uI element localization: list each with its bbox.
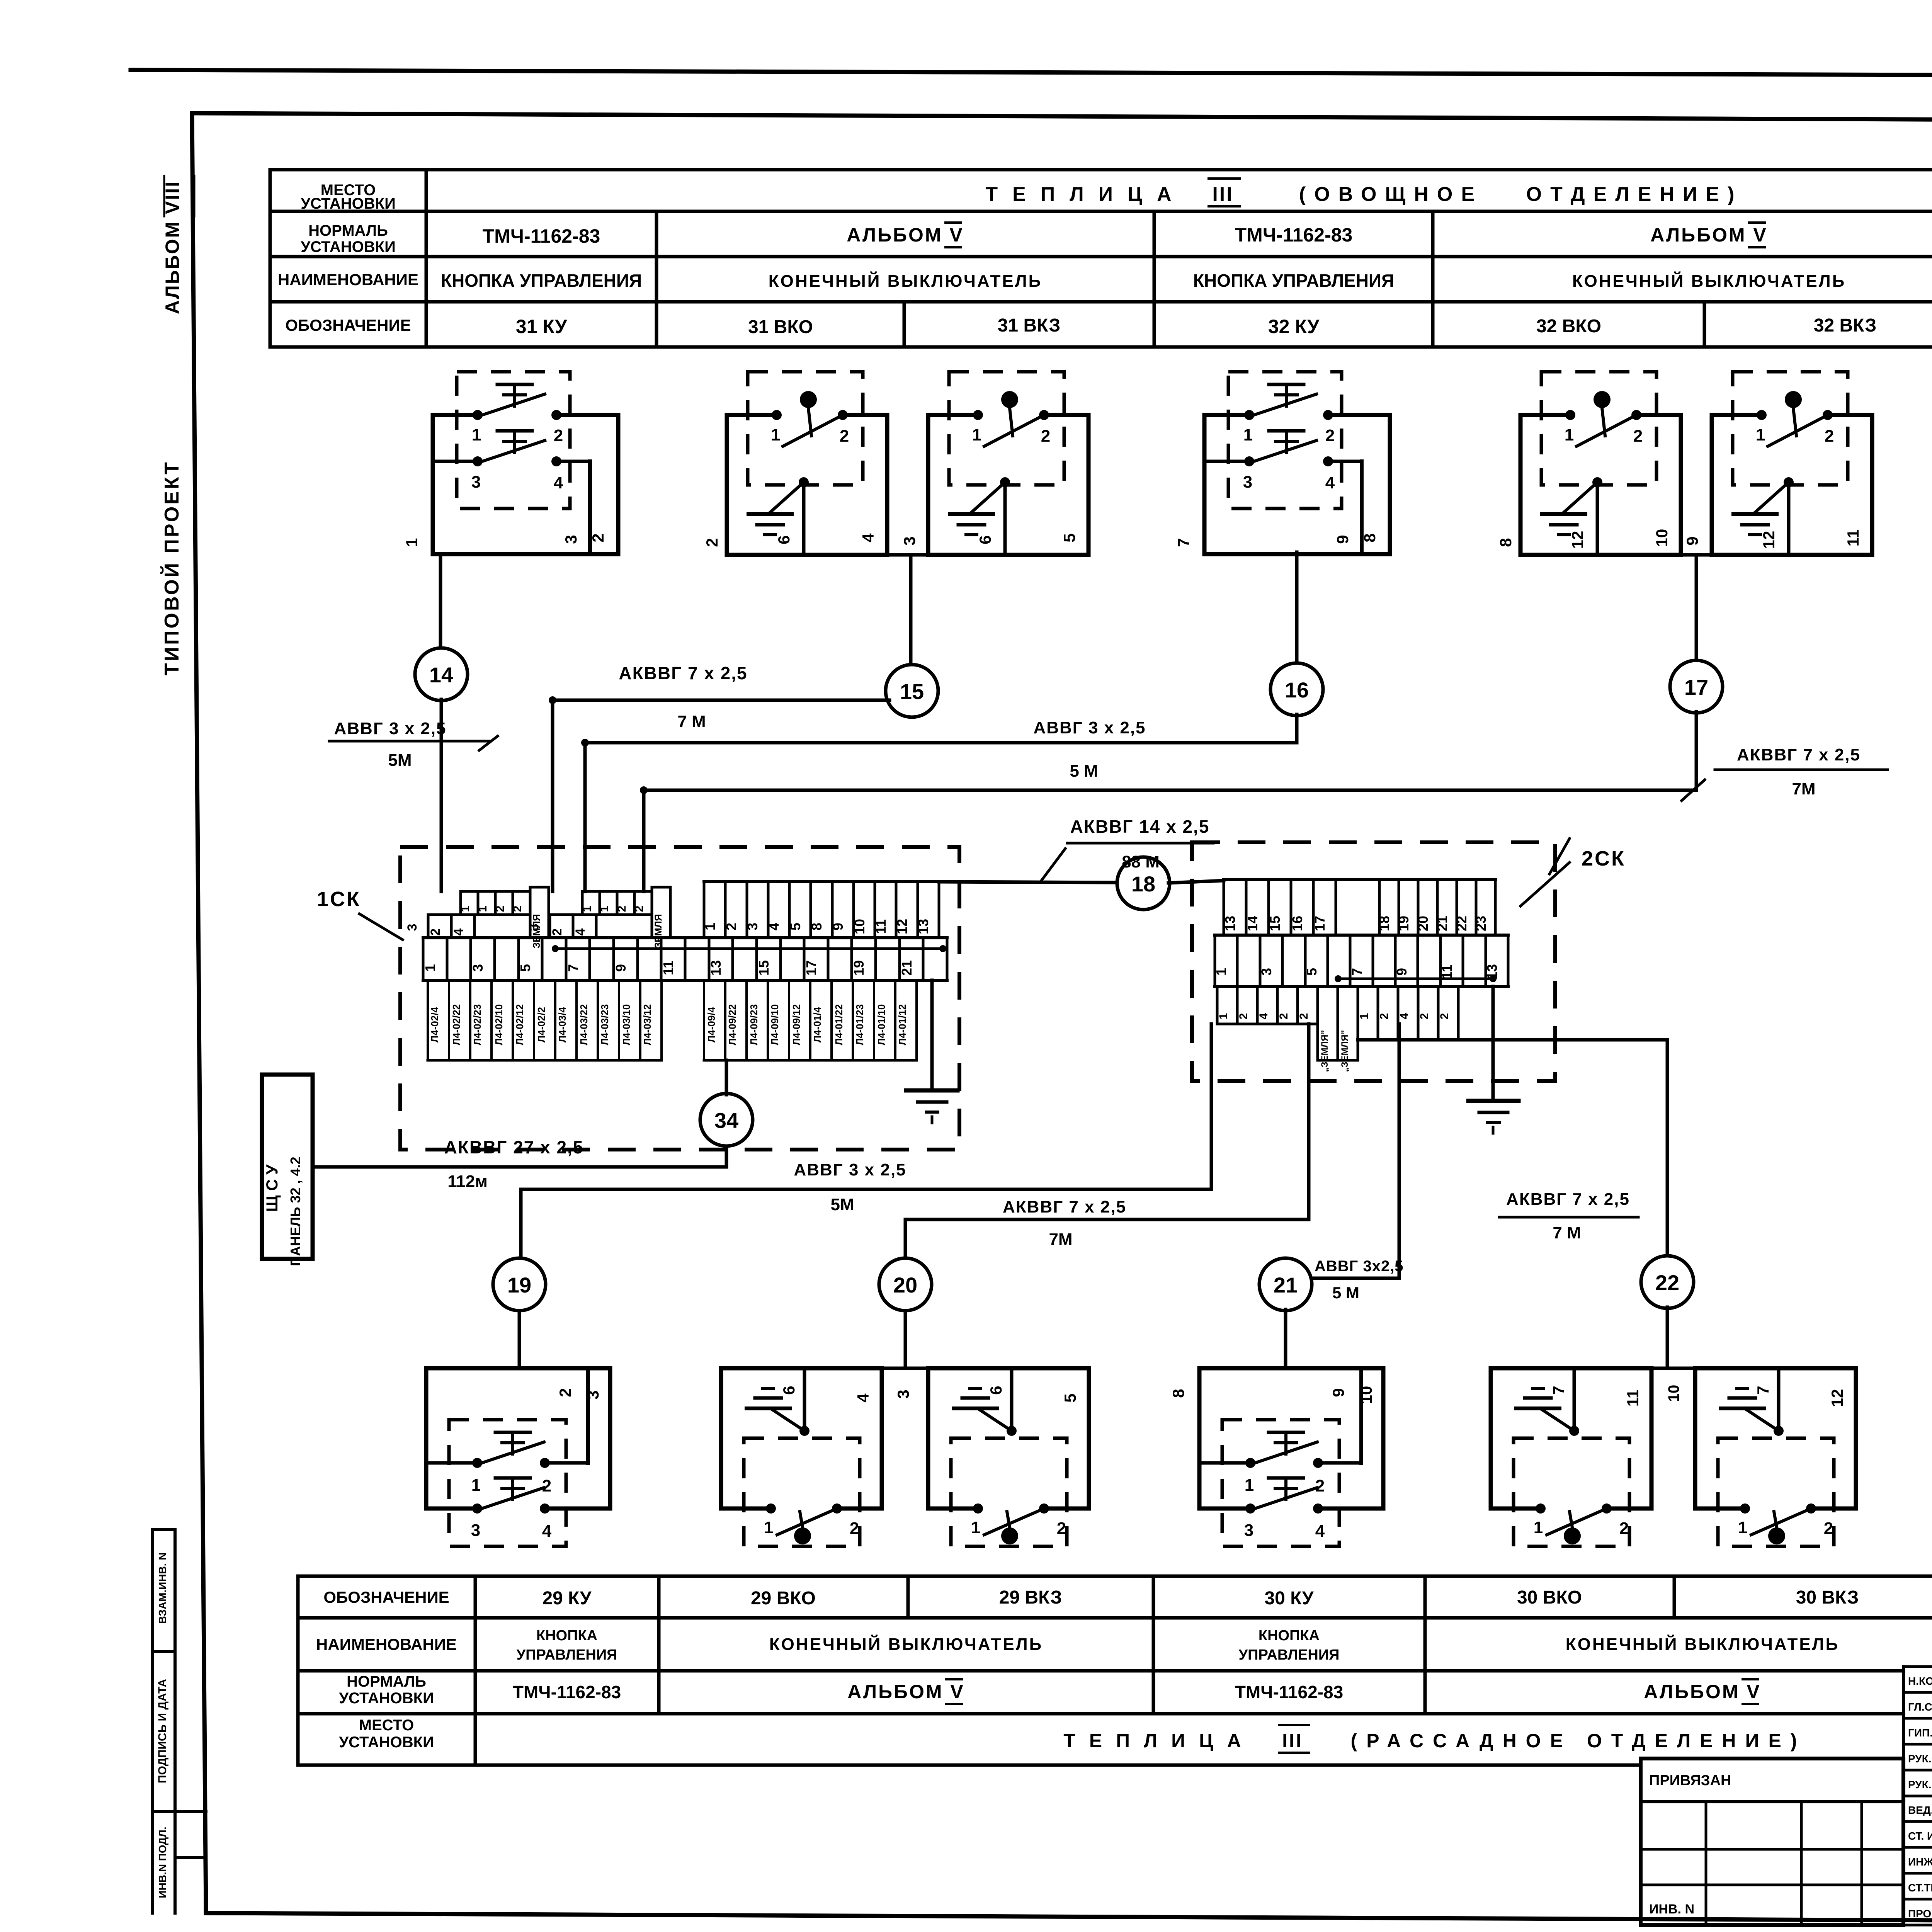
- svg-text:ВЕД.ИНЖ.: ВЕД.ИНЖ.: [1908, 1804, 1932, 1816]
- svg-text:2: 2: [556, 1388, 574, 1397]
- svg-text:УСТАНОВКИ: УСТАНОВКИ: [301, 195, 396, 212]
- svg-text:АКВВГ 14 х 2,5: АКВВГ 14 х 2,5: [1070, 816, 1210, 837]
- svg-text:23: 23: [1473, 916, 1489, 931]
- svg-text:КОНЕЧНЫЙ ВЫКЛЮЧАТЕЛЬ: КОНЕЧНЫЙ ВЫКЛЮЧАТЕЛЬ: [1566, 1634, 1839, 1654]
- svg-text:6: 6: [780, 1386, 798, 1395]
- svg-text:21: 21: [1434, 916, 1450, 931]
- svg-text:10: 10: [1357, 1386, 1375, 1404]
- 2СК lower small cells: [1216, 986, 1219, 1024]
- svg-text:ТМЧ-1162-83: ТМЧ-1162-83: [483, 225, 600, 247]
- svg-text:20: 20: [1415, 916, 1431, 931]
- svg-text:2: 2: [1619, 1519, 1629, 1538]
- 1СК ground wire and symbol: [930, 980, 934, 1089]
- svg-text:3: 3: [470, 964, 486, 972]
- svg-text:18: 18: [1131, 872, 1155, 896]
- svg-text:ОБОЗНАЧЕНИЕ: ОБОЗНАЧЕНИЕ: [323, 1588, 449, 1606]
- wire ЩСУ to 1СК via circle 34 (cable 27x2.5): [313, 1165, 726, 1169]
- svg-text:„ЗЕМЛЯ”: „ЗЕМЛЯ”: [1320, 1030, 1330, 1072]
- svg-text:32 ВКО: 32 ВКО: [1536, 316, 1601, 337]
- svg-text:Л4-02/4: Л4-02/4: [429, 1007, 440, 1043]
- svg-text:УПРАВЛЕНИЯ: УПРАВЛЕНИЯ: [517, 1647, 617, 1663]
- svg-text:13: 13: [915, 919, 931, 934]
- svg-text:1: 1: [1358, 1013, 1371, 1020]
- svg-text:5М: 5М: [830, 1195, 854, 1214]
- svg-text:АВВГ 3х2,5: АВВГ 3х2,5: [1315, 1258, 1404, 1275]
- svg-text:9: 9: [1683, 536, 1701, 545]
- svg-text:Н.КОНТР.: Н.КОНТР.: [1908, 1675, 1932, 1687]
- svg-text:ТЕПЛИЦА: ТЕПЛИЦА: [985, 183, 1186, 206]
- svg-text:1: 1: [472, 425, 481, 444]
- svg-text:32 КУ: 32 КУ: [1268, 316, 1320, 337]
- svg-text:11: 11: [1844, 529, 1862, 546]
- svg-text:УСТАНОВКИ: УСТАНОВКИ: [301, 238, 396, 255]
- svg-text:7 М: 7 М: [677, 712, 706, 731]
- svg-text:1: 1: [471, 1476, 481, 1495]
- svg-text:2: 2: [550, 929, 565, 936]
- cable marker circle 34: [700, 1094, 753, 1146]
- svg-text:3: 3: [900, 536, 918, 545]
- svg-text:4: 4: [451, 928, 466, 935]
- svg-text:7: 7: [565, 964, 581, 972]
- svg-text:7М: 7М: [1792, 779, 1815, 798]
- svg-text:АЛЬБОМ V: АЛЬБОМ V: [1650, 224, 1767, 246]
- svg-text:11: 11: [1624, 1389, 1642, 1406]
- svg-text:СТ. ИНЖ.: СТ. ИНЖ.: [1908, 1830, 1932, 1842]
- svg-text:3: 3: [1243, 473, 1252, 492]
- svg-text:30 ВКЗ: 30 ВКЗ: [1796, 1587, 1859, 1608]
- svg-text:2: 2: [1057, 1519, 1066, 1538]
- cable marker circle 21: [1259, 1258, 1312, 1311]
- svg-text:4: 4: [1257, 1013, 1270, 1019]
- svg-text:4: 4: [554, 473, 563, 492]
- svg-text:15: 15: [756, 960, 772, 976]
- svg-text:КНОПКА УПРАВЛЕНИЯ: КНОПКА УПРАВЛЕНИЯ: [1193, 270, 1394, 291]
- limit switch 30ВКЗ: [1695, 1366, 1856, 1371]
- svg-text:Л4-03/23: Л4-03/23: [599, 1004, 611, 1045]
- svg-text:2: 2: [850, 1519, 859, 1538]
- svg-text:2: 2: [723, 923, 739, 930]
- wire from 31ВКО/31ВКЗ down to 1СК (cable 15): [909, 555, 913, 666]
- svg-text:11: 11: [1439, 964, 1455, 979]
- svg-text:3: 3: [1244, 1521, 1253, 1540]
- svg-text:Щ С У: Щ С У: [263, 1164, 281, 1212]
- svg-text:12: 12: [1760, 531, 1778, 549]
- svg-text:ЗЕМЛЯ: ЗЕМЛЯ: [653, 914, 664, 949]
- svg-text:АВВГ 3 х 2,5: АВВГ 3 х 2,5: [1033, 718, 1146, 737]
- svg-text:Л4-09/10: Л4-09/10: [769, 1004, 781, 1045]
- svg-text:4: 4: [573, 928, 588, 935]
- wire 2СК to 30КУ (cable 21): [1398, 1024, 1401, 1278]
- svg-text:9: 9: [1333, 535, 1352, 544]
- svg-text:УСТАНОВКИ: УСТАНОВКИ: [339, 1690, 434, 1707]
- wire 2СК to 30ВКО/30ВКЗ (cable 22): [1666, 1040, 1669, 1257]
- svg-text:2: 2: [511, 906, 524, 912]
- svg-text:ТМЧ-1162-83: ТМЧ-1162-83: [1235, 224, 1353, 246]
- svg-text:Л4-01/4: Л4-01/4: [811, 1007, 823, 1043]
- svg-text:Л4-01/10: Л4-01/10: [876, 1004, 887, 1045]
- svg-text:5 М: 5 М: [1332, 1284, 1359, 1302]
- wire node 10 between 30ВКО and 30ВКЗ: [1651, 1367, 1695, 1370]
- svg-text:31 ВКО: 31 ВКО: [748, 317, 813, 337]
- svg-text:29 ВКЗ: 29 ВКЗ: [999, 1587, 1062, 1608]
- sheet outer top edge: [131, 70, 1932, 77]
- cable marker circle 20: [879, 1258, 932, 1311]
- wire from 32ВКО/32ВКЗ down to 1СК (cable 17): [1695, 555, 1698, 662]
- svg-text:КНОПКА УПРАВЛЕНИЯ: КНОПКА УПРАВЛЕНИЯ: [441, 270, 642, 291]
- 2СК tall terminal cells 13-23: [1223, 879, 1225, 935]
- svg-text:ГИП.: ГИП.: [1908, 1727, 1932, 1739]
- bottom device table frame: [298, 1575, 1932, 1578]
- svg-text:31 КУ: 31 КУ: [516, 316, 567, 337]
- svg-text:2: 2: [494, 906, 507, 912]
- wire 2СК to 29КУ (cable 19): [1210, 1024, 1213, 1189]
- svg-text:Л4-09/23: Л4-09/23: [748, 1004, 760, 1045]
- svg-text:АКВВГ 7 х 2,5: АКВВГ 7 х 2,5: [1737, 745, 1861, 764]
- junction box 1СК dashed outline: [400, 847, 959, 1150]
- svg-text:2: 2: [554, 426, 563, 445]
- svg-text:2: 2: [1277, 1013, 1290, 1020]
- wire 2СК to 29ВКО/29ВКЗ (cable 20): [1307, 1024, 1311, 1219]
- svg-text:2: 2: [1438, 1013, 1451, 1020]
- svg-text:19: 19: [507, 1273, 531, 1297]
- 1СК tall terminal cells 1-13: [703, 882, 706, 938]
- svg-text:6: 6: [976, 535, 994, 544]
- svg-text:ОТДЕЛЕНИЕ): ОТДЕЛЕНИЕ): [1526, 183, 1743, 206]
- svg-text:ОБОЗНАЧЕНИЕ: ОБОЗНАЧЕНИЕ: [285, 316, 411, 334]
- svg-text:3: 3: [1259, 968, 1274, 976]
- svg-text:Л4-02/22: Л4-02/22: [451, 1004, 462, 1045]
- svg-text:АКВВГ 7 х 2,5: АКВВГ 7 х 2,5: [1506, 1190, 1630, 1209]
- svg-text:11: 11: [873, 919, 889, 934]
- svg-text:ИНВ. N: ИНВ. N: [1649, 1902, 1694, 1917]
- svg-text:1: 1: [1534, 1518, 1543, 1537]
- svg-text:9: 9: [1394, 968, 1410, 976]
- svg-text:22: 22: [1655, 1270, 1679, 1295]
- svg-text:7М: 7М: [1049, 1230, 1072, 1249]
- 1СК cable tag row: [427, 980, 429, 1060]
- svg-text:ВЗАМ.ИНВ. N: ВЗАМ.ИНВ. N: [156, 1552, 168, 1624]
- limit switch 30ВКО: [1491, 1366, 1651, 1371]
- svg-text:НОРМАЛЬ: НОРМАЛЬ: [308, 222, 388, 239]
- svg-text:2: 2: [589, 533, 607, 542]
- wire node 3 between 29ВКО and 29ВКЗ: [882, 1367, 928, 1370]
- svg-text:32 ВКЗ: 32 ВКЗ: [1814, 315, 1877, 336]
- svg-text:29 ВКО: 29 ВКО: [751, 1588, 816, 1609]
- svg-text:1: 1: [971, 1518, 980, 1537]
- svg-text:КОНЕЧНЫЙ ВЫКЛЮЧАТЕЛЬ: КОНЕЧНЫЙ ВЫКЛЮЧАТЕЛЬ: [769, 1634, 1043, 1654]
- svg-text:ПОДПИСЬ И ДАТА: ПОДПИСЬ И ДАТА: [156, 1679, 169, 1783]
- svg-text:8: 8: [1361, 533, 1379, 542]
- svg-text:2: 2: [1633, 427, 1643, 446]
- wire node 3 between 31ВКО and 31ВКЗ: [887, 553, 928, 557]
- svg-text:34: 34: [714, 1108, 738, 1133]
- svg-text:3: 3: [527, 924, 541, 931]
- svg-text:8: 8: [809, 923, 825, 930]
- svg-text:2: 2: [1824, 1519, 1833, 1538]
- svg-text:АКВВГ 7 х 2,5: АКВВГ 7 х 2,5: [1003, 1197, 1126, 1216]
- svg-text:ТМЧ-1162-83: ТМЧ-1162-83: [513, 1682, 621, 1702]
- svg-text:12: 12: [1568, 531, 1587, 549]
- svg-text:1: 1: [1245, 1476, 1254, 1495]
- svg-text:30 ВКО: 30 ВКО: [1517, 1587, 1582, 1608]
- svg-text:2: 2: [428, 929, 443, 936]
- svg-text:1: 1: [476, 906, 489, 912]
- svg-text:7: 7: [1549, 1386, 1568, 1395]
- svg-text:4: 4: [1315, 1522, 1325, 1541]
- svg-text:2: 2: [1418, 1013, 1431, 1020]
- svg-text:ИНЖ.: ИНЖ.: [1908, 1856, 1932, 1868]
- svg-text:1: 1: [764, 1518, 773, 1537]
- title block signatures table: [1902, 1667, 1905, 1925]
- svg-text:4: 4: [859, 533, 877, 543]
- svg-text:5 М: 5 М: [1070, 762, 1098, 781]
- cable marker circle 22: [1641, 1256, 1694, 1308]
- svg-text:(ОВОЩНОЕ: (ОВОЩНОЕ: [1299, 183, 1483, 206]
- cable marker circle 16: [1270, 663, 1323, 716]
- svg-text:8: 8: [1497, 538, 1515, 547]
- junction box 2СК dashed outline: [1192, 842, 1555, 1081]
- svg-text:88 М: 88 М: [1122, 852, 1160, 871]
- svg-text:ТИПОВОЙ ПРОЕКТ: ТИПОВОЙ ПРОЕКТ: [160, 460, 183, 675]
- svg-text:1: 1: [702, 923, 718, 930]
- svg-text:16: 16: [1289, 916, 1305, 931]
- svg-text:ТМЧ-1162-83: ТМЧ-1162-83: [1235, 1682, 1343, 1702]
- svg-text:2: 2: [1325, 426, 1335, 445]
- svg-text:13: 13: [1222, 916, 1238, 931]
- svg-text:11: 11: [660, 961, 676, 975]
- svg-text:5: 5: [787, 923, 803, 930]
- limit switch 29ВКО: [721, 1366, 882, 1371]
- svg-text:7: 7: [1174, 538, 1192, 547]
- svg-text:ИНВ.N ПОДЛ.: ИНВ.N ПОДЛ.: [156, 1827, 168, 1898]
- 2СК main terminal row: [1215, 934, 1508, 937]
- svg-text:5: 5: [1304, 968, 1320, 976]
- svg-text:7 М: 7 М: [1553, 1223, 1581, 1242]
- svg-text:21: 21: [899, 960, 915, 976]
- svg-text:4: 4: [766, 923, 782, 930]
- svg-text:АКВВГ 7 х 2,5: АКВВГ 7 х 2,5: [619, 663, 747, 683]
- svg-text:1: 1: [581, 906, 594, 912]
- svg-text:НОРМАЛЬ: НОРМАЛЬ: [347, 1673, 426, 1690]
- svg-text:22: 22: [1454, 916, 1469, 931]
- push-button station 32КУ: [1204, 413, 1249, 417]
- title block attach box Привязан: [1641, 1759, 1903, 1925]
- wire from 32КУ down to 1СК (cable 16): [1295, 552, 1299, 664]
- limit switch 32ВКО: [1520, 413, 1570, 417]
- svg-text:21: 21: [1274, 1273, 1298, 1297]
- svg-text:1: 1: [1756, 425, 1765, 444]
- svg-text:КОНЕЧНЫЙ ВЫКЛЮЧАТЕЛЬ: КОНЕЧНЫЙ ВЫКЛЮЧАТЕЛЬ: [1572, 271, 1846, 291]
- svg-text:9: 9: [1329, 1388, 1347, 1397]
- cable marker circle 19: [493, 1258, 546, 1311]
- svg-text:8: 8: [1169, 1389, 1187, 1398]
- svg-text:17: 17: [803, 960, 819, 976]
- svg-text:1: 1: [972, 425, 981, 444]
- svg-text:Л4-02/12: Л4-02/12: [514, 1004, 526, 1045]
- svg-text:Л4-01/12: Л4-01/12: [896, 1004, 908, 1045]
- svg-text:1СК: 1СК: [317, 888, 361, 911]
- svg-text:19: 19: [851, 960, 867, 976]
- svg-text:9: 9: [830, 923, 846, 930]
- svg-text:30 КУ: 30 КУ: [1264, 1588, 1314, 1609]
- svg-text:17: 17: [1684, 675, 1708, 699]
- svg-text:19: 19: [1396, 916, 1412, 931]
- svg-text:12: 12: [1828, 1389, 1846, 1407]
- svg-text:1: 1: [771, 425, 780, 444]
- svg-text:15: 15: [900, 679, 924, 704]
- svg-text:Л4-09/22: Л4-09/22: [726, 1004, 738, 1045]
- svg-text:III: III: [1282, 1730, 1303, 1752]
- svg-text:5: 5: [517, 964, 533, 972]
- svg-text:3: 3: [562, 535, 580, 544]
- svg-text:6: 6: [775, 535, 793, 544]
- svg-text:1: 1: [1213, 968, 1229, 976]
- svg-text:(РАССАДНОЕ ОТДЕЛЕНИЕ): (РАССАДНОЕ ОТДЕЛЕНИЕ): [1351, 1730, 1806, 1752]
- svg-text:Л4-02/2: Л4-02/2: [536, 1007, 547, 1043]
- svg-text:КНОПКА: КНОПКА: [536, 1628, 597, 1644]
- cable marker circle 15: [886, 665, 938, 717]
- svg-text:„ЗЕМЛЯ”: „ЗЕМЛЯ”: [1340, 1030, 1350, 1072]
- svg-text:2: 2: [840, 427, 849, 446]
- svg-text:2СК: 2СК: [1582, 847, 1626, 870]
- svg-text:Л4-01/23: Л4-01/23: [854, 1004, 866, 1045]
- svg-text:КНОПКА: КНОПКА: [1259, 1628, 1320, 1644]
- svg-text:2: 2: [1237, 1013, 1250, 1020]
- svg-text:АЛЬБОМ V: АЛЬБОМ V: [847, 224, 964, 246]
- svg-text:12: 12: [894, 919, 910, 934]
- svg-text:14: 14: [1245, 916, 1260, 931]
- svg-text:17: 17: [1312, 916, 1328, 931]
- svg-text:2: 2: [703, 538, 721, 547]
- svg-text:СТ.ТЕХН.: СТ.ТЕХН.: [1908, 1882, 1932, 1894]
- svg-text:5М: 5М: [388, 751, 412, 770]
- 2СК ground wire and symbol: [1492, 986, 1495, 1099]
- cable marker circle 17: [1670, 660, 1723, 713]
- push-button station 31КУ: [433, 413, 478, 417]
- svg-text:АКВВГ 27 х 2,5: АКВВГ 27 х 2,5: [444, 1137, 584, 1157]
- 2СК internal jumper wire: [1338, 978, 1493, 980]
- svg-text:Л4-09/4: Л4-09/4: [706, 1007, 717, 1043]
- svg-text:13: 13: [708, 960, 724, 976]
- svg-text:Л4-03/12: Л4-03/12: [641, 1004, 653, 1045]
- svg-text:4: 4: [854, 1393, 872, 1403]
- svg-text:1: 1: [422, 964, 438, 972]
- limit switch 31ВКО: [727, 413, 777, 417]
- svg-text:3: 3: [584, 1390, 602, 1399]
- svg-text:КОНЕЧНЫЙ ВЫКЛЮЧАТЕЛЬ: КОНЕЧНЫЙ ВЫКЛЮЧАТЕЛЬ: [769, 271, 1042, 291]
- svg-text:10: 10: [1665, 1385, 1682, 1402]
- svg-text:УПРАВЛЕНИЯ: УПРАВЛЕНИЯ: [1239, 1647, 1340, 1663]
- 1СК main terminal row: [423, 936, 947, 939]
- svg-text:ПРИВЯЗАН: ПРИВЯЗАН: [1649, 1772, 1731, 1789]
- svg-text:ГЛ.СПЕЦ.ОТД: ГЛ.СПЕЦ.ОТД: [1908, 1701, 1932, 1713]
- svg-text:112м: 112м: [447, 1172, 488, 1191]
- svg-text:1: 1: [1217, 1013, 1230, 1020]
- svg-text:III: III: [1212, 183, 1233, 206]
- svg-text:16: 16: [1285, 678, 1309, 702]
- push-button station 29КУ: [426, 1366, 610, 1371]
- svg-text:3: 3: [745, 923, 760, 930]
- push-button station 30КУ: [1199, 1366, 1383, 1371]
- svg-text:РУК.СЕКТ.: РУК.СЕКТ.: [1908, 1753, 1932, 1765]
- svg-text:3: 3: [471, 473, 481, 492]
- svg-text:3: 3: [405, 924, 420, 931]
- svg-text:29 КУ: 29 КУ: [542, 1588, 592, 1609]
- svg-text:4: 4: [1325, 473, 1335, 492]
- svg-text:1: 1: [598, 906, 611, 912]
- wire between 1СК and 2СК (cable 18): [939, 882, 1118, 883]
- 1СК internal jumper wire: [555, 947, 943, 950]
- svg-text:1: 1: [1243, 425, 1253, 444]
- svg-text:Л4-03/10: Л4-03/10: [621, 1004, 632, 1045]
- svg-text:5: 5: [1061, 1393, 1079, 1402]
- svg-text:6: 6: [987, 1386, 1005, 1395]
- svg-text:9: 9: [613, 964, 629, 972]
- svg-text:18: 18: [1376, 916, 1392, 931]
- svg-text:15: 15: [1267, 916, 1283, 931]
- svg-text:Л4-03/22: Л4-03/22: [578, 1004, 590, 1045]
- svg-text:1: 1: [1738, 1518, 1747, 1537]
- svg-text:1: 1: [459, 906, 472, 912]
- limit switch 32ВКЗ: [1712, 413, 1762, 417]
- svg-text:Л4-09/12: Л4-09/12: [791, 1004, 802, 1045]
- 2СК bottom bus wire: [1358, 1038, 1667, 1042]
- svg-text:РУК. ГР.: РУК. ГР.: [1908, 1779, 1932, 1791]
- svg-text:Л4-03/4: Л4-03/4: [556, 1007, 568, 1043]
- svg-text:14: 14: [429, 663, 453, 687]
- cable marker circle 18: [1117, 857, 1170, 910]
- svg-text:АЛЬБОМ V: АЛЬБОМ V: [847, 1681, 964, 1702]
- svg-text:УСТАНОВКИ: УСТАНОВКИ: [339, 1734, 434, 1751]
- wire node 9 between 32ВКО and 32ВКЗ: [1681, 553, 1712, 557]
- svg-text:2: 2: [1315, 1476, 1325, 1495]
- wire from 31КУ down to 1СК (cable 14): [439, 554, 442, 649]
- limit switch 29ВКЗ: [928, 1366, 1089, 1371]
- svg-text:1: 1: [403, 538, 421, 547]
- top device table frame: [270, 168, 1932, 172]
- svg-text:4: 4: [542, 1522, 552, 1541]
- svg-text:4: 4: [1398, 1013, 1411, 1019]
- svg-text:Л4-02/10: Л4-02/10: [493, 1004, 505, 1045]
- svg-text:2: 2: [1378, 1013, 1391, 1020]
- svg-text:2: 2: [616, 906, 628, 912]
- svg-text:МЕСТО: МЕСТО: [359, 1717, 414, 1734]
- svg-text:20: 20: [893, 1273, 917, 1297]
- svg-text:2: 2: [1825, 427, 1834, 446]
- svg-text:31 ВКЗ: 31 ВКЗ: [998, 315, 1061, 336]
- cable marker circle 14: [415, 648, 468, 701]
- svg-text:2: 2: [1041, 427, 1050, 446]
- svg-text:5: 5: [1060, 533, 1078, 542]
- svg-text:10: 10: [852, 919, 867, 934]
- svg-text:2: 2: [633, 906, 646, 912]
- svg-text:АВВГ 3 х 2,5: АВВГ 3 х 2,5: [794, 1160, 906, 1179]
- svg-text:2: 2: [542, 1476, 551, 1495]
- svg-text:7: 7: [1349, 968, 1365, 976]
- svg-text:НАИМЕНОВАНИЕ: НАИМЕНОВАНИЕ: [278, 270, 418, 289]
- svg-text:7: 7: [1754, 1386, 1772, 1395]
- limit switch 31ВКЗ: [928, 413, 978, 417]
- svg-text:2: 2: [1298, 1013, 1310, 1020]
- svg-text:ТЕПЛИЦА: ТЕПЛИЦА: [1063, 1730, 1255, 1752]
- svg-text:АВВГ 3 х 2,5: АВВГ 3 х 2,5: [334, 719, 446, 738]
- left stamp column boxes: [151, 1529, 154, 1913]
- svg-text:Л4-01/22: Л4-01/22: [833, 1004, 845, 1045]
- ЩСУ panel box: [262, 1075, 313, 1259]
- svg-text:АЛЬБОМ V: АЛЬБОМ V: [1644, 1681, 1761, 1702]
- svg-text:10: 10: [1653, 529, 1671, 547]
- 1СК upper small cells group 1: [428, 913, 474, 916]
